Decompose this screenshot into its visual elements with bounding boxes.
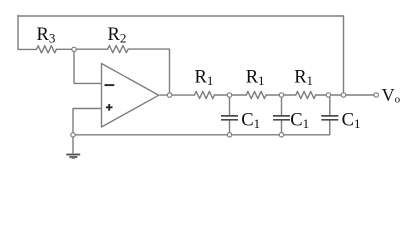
op-amp U1 minus sign bbox=[105, 84, 115, 86]
wire R2 right lead and drop to output bbox=[128, 49, 169, 93]
svg-text:Vo: Vo bbox=[382, 85, 401, 106]
node B bbox=[227, 93, 231, 97]
wire op-amp output to ladder bbox=[160, 94, 195, 96]
node D bbox=[326, 93, 330, 97]
resistor R3 bbox=[37, 46, 57, 53]
wire R3 left lead bbox=[18, 48, 37, 50]
wire bottom ground rail bbox=[75, 134, 330, 136]
capacitor C1 first : stubs bbox=[229, 97, 231, 132]
svg-text:C1: C1 bbox=[290, 111, 309, 132]
resistor R1 second bbox=[246, 91, 266, 98]
op-amp U1 bbox=[102, 64, 159, 128]
wire node E to output terminal bbox=[346, 94, 374, 96]
capacitor C1 third : stubs bbox=[329, 97, 331, 135]
node B bottom bbox=[227, 133, 231, 137]
node C bottom bbox=[279, 133, 283, 137]
wire R1a to node B bbox=[214, 94, 227, 96]
wire R3 to node A bbox=[56, 48, 71, 50]
wire node A to R2 bbox=[76, 48, 108, 50]
svg-text:R2: R2 bbox=[108, 25, 127, 46]
resistor R1 first bbox=[195, 91, 215, 98]
resistor R2 bbox=[108, 46, 128, 53]
resistor R1 third bbox=[296, 91, 316, 98]
wire node B to R1b bbox=[232, 94, 246, 96]
capacitor C1 second : plates bbox=[273, 116, 290, 120]
wire top rail down to node E bbox=[343, 16, 345, 93]
wire node C to R1c bbox=[284, 94, 296, 96]
svg-text:R1: R1 bbox=[294, 68, 313, 89]
terminal Vo bbox=[374, 93, 378, 97]
wire node D to node E bbox=[331, 94, 342, 96]
wire ground stem bbox=[72, 137, 74, 153]
capacitor C1 second : stubs bbox=[281, 97, 283, 132]
node output junction bbox=[167, 93, 171, 97]
wire noninverting input to ground branch bbox=[73, 109, 101, 132]
capacitor C1 first : plates bbox=[221, 116, 238, 120]
svg-text:R1: R1 bbox=[195, 68, 214, 89]
node E top-rail junction bbox=[341, 93, 345, 97]
wire node A down to inverting input bbox=[74, 52, 101, 84]
capacitor C1 third : plates bbox=[321, 116, 338, 120]
wire left vertical drop bbox=[17, 15, 19, 49]
op-amp U1 plus sign bbox=[106, 104, 113, 111]
ground bbox=[66, 155, 80, 160]
wire top feedback rail bbox=[18, 15, 344, 17]
wire R1c to node D bbox=[316, 94, 327, 96]
node ground junction bbox=[71, 133, 75, 137]
svg-text:C1: C1 bbox=[241, 111, 260, 132]
svg-text:R3: R3 bbox=[37, 25, 56, 46]
svg-text:C1: C1 bbox=[342, 111, 361, 132]
node A junction R3/R2 bbox=[72, 47, 76, 51]
svg-text:R1: R1 bbox=[246, 68, 265, 89]
node C bbox=[279, 93, 283, 97]
wire R1b to node C bbox=[266, 94, 279, 96]
